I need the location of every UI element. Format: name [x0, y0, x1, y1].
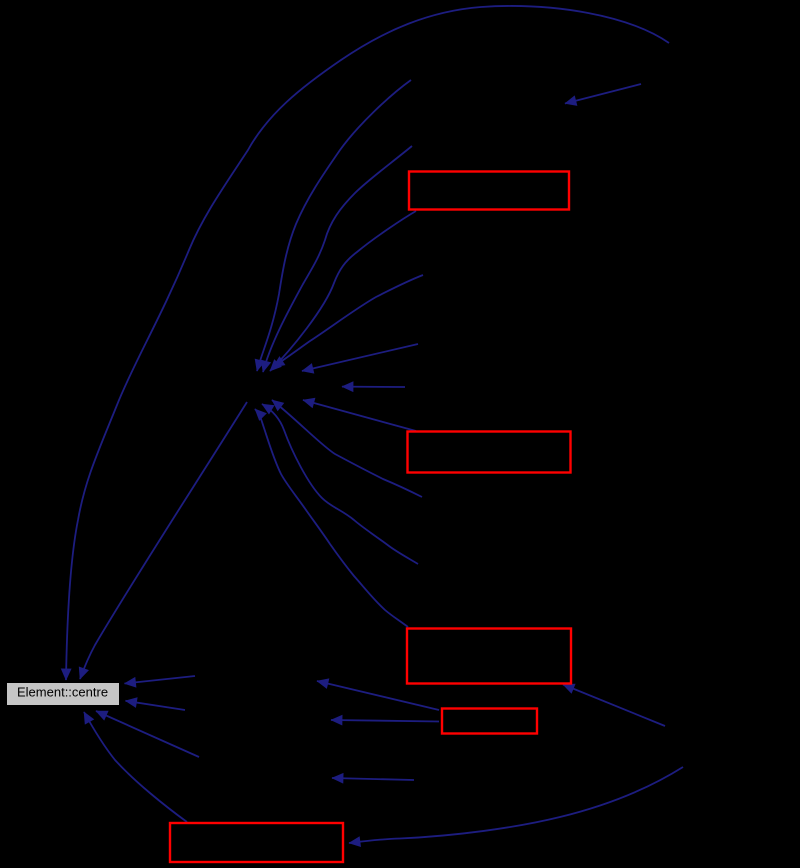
- wire horizontal edge from mid node A8 into node N3: [332, 778, 414, 780]
- wire edge from right node R3 sweeping along the bottom into red box 5: [349, 767, 683, 843]
- wire edge from node N1 into Element::centre: [125, 676, 196, 684]
- wire edge from mid node A1 curving down-left into node M1: [257, 80, 411, 371]
- svg-text:Element::centre: Element::centre: [17, 685, 108, 700]
- wire edge from red box 4 into node N1: [317, 681, 439, 710]
- wire edge from node N3 into Element::centre bottom: [96, 711, 199, 757]
- wire arrow from top-right node into mid node T2: [565, 84, 641, 104]
- node red box 2: [408, 432, 571, 473]
- wire edge from red box 2 into node M2: [303, 400, 416, 431]
- node red box 4: [442, 709, 537, 734]
- wire edge from red box 5 curving up into Element::centre bottom: [84, 712, 187, 822]
- node red box 1: [409, 172, 569, 210]
- node Element::centre: [7, 683, 120, 706]
- wire edge from red box 1 into node M1: [270, 211, 416, 371]
- wire horizontal edge from red box 4 into node N2: [331, 720, 439, 722]
- node red box 3: [407, 629, 571, 684]
- wire edge from top-right node over the top and down the left side into Element::centre: [66, 6, 669, 680]
- wire edge from mid node A6 into node M2: [272, 400, 422, 497]
- wire edge from node N2 into Element::centre: [126, 701, 186, 710]
- wire short horizontal edge from mid node A5 into node M1: [342, 386, 405, 388]
- wire edge from node M2 down to Element::centre: [80, 402, 247, 679]
- wire edge from mid node A4 into node M1: [302, 344, 418, 371]
- node red box 5: [170, 823, 343, 862]
- wire edge from mid node A2 into node M1: [263, 146, 412, 372]
- wire edge from mid node A3 into node M1: [273, 275, 423, 367]
- wire edge from red box 3 into node M2: [255, 409, 408, 627]
- wire edge from right node R3 into red box 3 corner: [563, 685, 665, 727]
- wire edge from mid node A7 into node M2: [262, 404, 418, 564]
